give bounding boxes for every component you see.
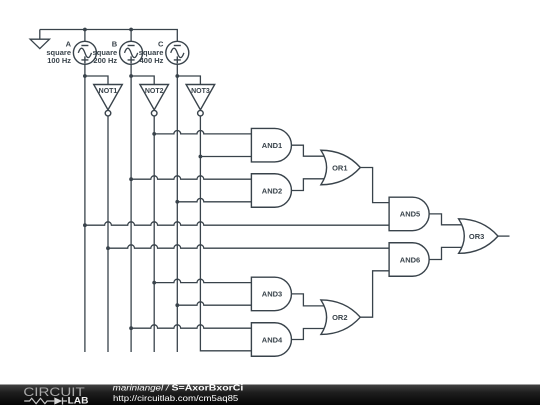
junction rail B / NOT2 tap	[129, 74, 133, 78]
wire AND2 output to OR1 pin B	[292, 179, 325, 191]
svg-text:AND1: AND1	[262, 141, 282, 150]
svg-text:400 Hz: 400 Hz	[140, 56, 164, 65]
wire notC to AND1 pin B	[200, 156, 251, 158]
wire OR3 output S	[498, 235, 510, 237]
wire notA to AND6 pin A	[108, 245, 389, 248]
AND gate AND2	[251, 174, 291, 208]
svg-text:100 Hz: 100 Hz	[47, 56, 71, 65]
ground	[30, 30, 49, 49]
svg-text:mariniangel /: mariniangel /	[113, 382, 171, 392]
wire OR2 output to AND6 pin B	[360, 271, 389, 317]
wire stub top of source A	[84, 30, 86, 42]
junction rail B / AND4.a	[129, 326, 133, 330]
wire OR1 output to AND5 pin A	[360, 168, 389, 203]
wire top supply rail from ground to source C	[40, 30, 178, 42]
AND gate AND5	[389, 197, 429, 231]
inverter NOT1	[94, 85, 123, 116]
voltage source C (400 Hz square wave)	[166, 41, 189, 64]
junction rail notB / AND1.a	[152, 132, 156, 136]
wire B to AND2 pin A	[131, 176, 251, 179]
wire rail notB (NOT2 output)	[153, 116, 155, 352]
junction rail C / NOT3 tap	[175, 74, 179, 78]
voltage source A (100 Hz square wave)	[73, 41, 96, 64]
wire rail notC (NOT3 output) into AND4 pin B	[200, 116, 251, 351]
svg-text:AND2: AND2	[262, 186, 282, 195]
svg-text:AND6: AND6	[400, 255, 420, 264]
wire stub top of source B	[130, 30, 132, 42]
junction rail C / AND2.b	[175, 200, 179, 204]
svg-text:200 Hz: 200 Hz	[93, 56, 117, 65]
svg-text:http://circuitlab.com/cm5aq85: http://circuitlab.com/cm5aq85	[113, 393, 239, 403]
wire rail C (source C output)	[176, 64, 178, 352]
junction rail notA / AND6.a	[106, 246, 110, 250]
junction top rail / source B	[129, 28, 133, 32]
junction rail A / NOT1 tap	[83, 74, 87, 78]
svg-text:NOT1: NOT1	[99, 88, 118, 95]
wire tap rail A to NOT1 input	[85, 76, 108, 85]
svg-text:OR2: OR2	[332, 313, 347, 322]
svg-text:NOT2: NOT2	[145, 88, 164, 95]
wire A to AND5 pin B	[85, 222, 389, 225]
wire B to AND4 pin A	[131, 325, 251, 328]
wire AND1 output to OR1 pin A	[292, 145, 325, 156]
AND gate AND6	[389, 243, 429, 277]
svg-text:NOT3: NOT3	[191, 88, 210, 95]
wire rail notA (NOT1 output)	[107, 116, 109, 352]
inverter NOT3	[186, 85, 215, 116]
svg-text:AND5: AND5	[400, 210, 420, 219]
wire rail A (source A output)	[84, 64, 86, 352]
wire rail B (source B output)	[130, 64, 132, 352]
OR gate OR2	[321, 300, 360, 335]
wire notB to AND3 pin A	[154, 279, 251, 282]
voltage source B (200 Hz square wave)	[120, 41, 143, 64]
AND gate AND1	[251, 128, 291, 162]
junction top rail / source A	[83, 28, 87, 32]
svg-text:LAB: LAB	[68, 396, 89, 405]
junction rail notB / AND3.a	[152, 281, 156, 285]
svg-text:OR3: OR3	[469, 232, 484, 241]
logo diode symbol	[54, 397, 62, 404]
OR gate OR1	[321, 150, 360, 185]
wire AND5 output to OR3 pin A	[429, 214, 462, 225]
junction rail A / AND5.b	[83, 223, 87, 227]
wire AND3 output to OR2 pin A	[292, 294, 325, 306]
wire C to AND3 pin B	[177, 302, 251, 305]
wire C to AND2 pin B	[177, 198, 251, 201]
wire AND4 output to OR2 pin B	[292, 329, 325, 340]
junction rail B / AND2.a	[129, 177, 133, 181]
junction rail C / AND3.b	[175, 303, 179, 307]
OR gate OR3	[459, 219, 498, 254]
svg-text:AND3: AND3	[262, 290, 282, 299]
junction rail notC / AND1.b	[199, 155, 203, 159]
AND gate AND4	[251, 323, 291, 357]
logo resistor symbol	[24, 398, 54, 403]
wire tap rail C to NOT3 input	[177, 76, 200, 85]
wire notB to AND1 pin A	[154, 130, 251, 133]
AND gate AND3	[251, 277, 291, 311]
svg-text:OR1: OR1	[332, 163, 347, 172]
svg-text:S=AxorBxorCi: S=AxorBxorCi	[172, 382, 244, 392]
wire tap rail B to NOT2 input	[131, 76, 154, 85]
svg-text:AND4: AND4	[262, 335, 283, 344]
wire AND6 output to OR3 pin B	[429, 247, 462, 259]
inverter NOT2	[140, 85, 169, 116]
